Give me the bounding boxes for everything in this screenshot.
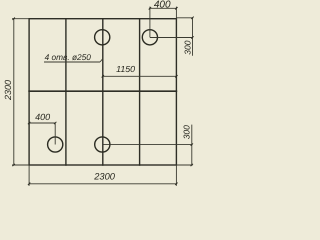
svg-text:1150: 1150 (116, 64, 135, 74)
svg-text:300: 300 (182, 40, 192, 54)
svg-text:2300: 2300 (93, 172, 116, 182)
svg-text:2300: 2300 (3, 80, 13, 101)
svg-text:4 отв. ø250: 4 отв. ø250 (45, 52, 92, 62)
svg-text:400: 400 (35, 112, 50, 122)
svg-text:400: 400 (154, 0, 171, 11)
svg-text:300: 300 (182, 125, 192, 139)
